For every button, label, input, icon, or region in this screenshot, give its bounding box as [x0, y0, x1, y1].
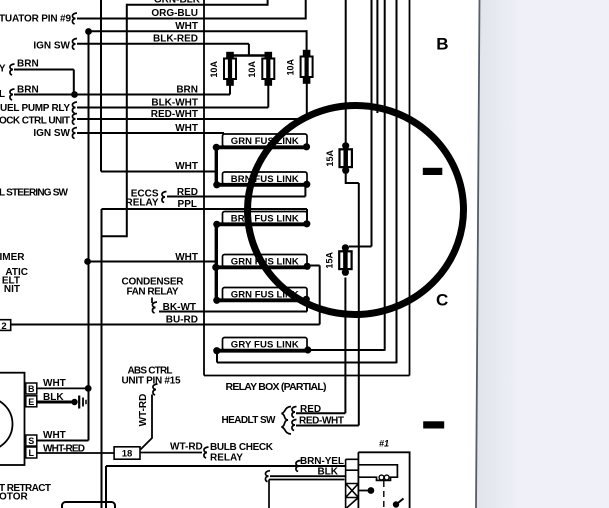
wire ORG-BLU exit top [305, 0, 307, 20]
connector squiggle condenser fan relay [151, 298, 153, 304]
relay 1 connector column [346, 459, 359, 508]
wire BRN branch drop [73, 70, 75, 95]
fusible link L4 bar [216, 265, 308, 269]
fuse F5 terminals [342, 244, 349, 251]
svg-text:B: B [28, 384, 35, 394]
wire GRY load riser to top [384, 0, 386, 351]
fusible link L2 bar [217, 183, 308, 187]
fuse F1 terminals [226, 52, 234, 59]
wire jog to GRN-BLK bus [102, 235, 127, 237]
svg-text:TUATOR PIN #9: TUATOR PIN #9 [0, 14, 71, 25]
svg-text:WHT: WHT [175, 123, 198, 134]
wire ORG-BLU [77, 18, 306, 20]
svg-text:PPL: PPL [178, 199, 197, 210]
svg-text:BRN-YEL: BRN-YEL [300, 456, 344, 467]
wire BLK to relay 1 [270, 475, 346, 477]
relay 1 switch arm dot [393, 501, 399, 507]
connector squiggle RED-WHT [72, 114, 77, 125]
fuse F5 15A body [339, 251, 351, 269]
svg-text:RED-WHT: RED-WHT [151, 109, 198, 120]
wire GRN-BLK horizontal [127, 4, 268, 6]
relay 1 switch arm [396, 499, 404, 505]
pin L box [26, 447, 37, 458]
relay 1 lower diagonal [347, 498, 359, 508]
junction dot WHT row6 [84, 258, 91, 265]
fuse F2 10A body [262, 59, 274, 80]
svg-text:BULB CHECK: BULB CHECK [210, 442, 274, 453]
fuse F4 15A body [340, 149, 352, 167]
connector squiggle ABS ctrl [153, 384, 158, 395]
svg-text:C: C [436, 291, 448, 310]
wire 15A F5 feed from top [371, 0, 373, 247]
fuse F2 terminals [265, 52, 273, 59]
fusible link L5 GRN FUS LINK box [223, 288, 308, 300]
fusible link L4 dots [212, 264, 219, 271]
svg-text:WHT: WHT [175, 161, 198, 172]
wire GRY link feed stub [216, 351, 218, 363]
svg-text:BRN FUS LINK: BRN FUS LINK [231, 174, 299, 185]
fusible link L1 bar [216, 145, 307, 149]
fusible link L3 BRN FUS LINK box [223, 212, 308, 224]
svg-text:RED-WHT: RED-WHT [299, 415, 344, 426]
wire RED to HEADLT SW [296, 412, 345, 414]
wire RED-WHT to HEADLT SW [296, 425, 359, 427]
wire BRN upper branch [14, 69, 74, 71]
fusible link L4 GRN FUS LINK box [223, 255, 308, 267]
svg-text:BU-RD: BU-RD [166, 314, 198, 325]
bottom component box top edge [106, 465, 346, 467]
relay box right edge [409, 0, 411, 376]
wire RED-WHT row [77, 118, 307, 120]
svg-text:10A: 10A [285, 59, 295, 76]
svg-text:18: 18 [122, 449, 133, 460]
svg-text:FAN RELAY: FAN RELAY [127, 287, 179, 298]
svg-text:L: L [0, 89, 5, 100]
svg-text:RED: RED [177, 187, 198, 198]
fuse F3 terminals [303, 50, 311, 57]
svg-text:GRN FUS LINK: GRN FUS LINK [231, 257, 299, 268]
wire GRY feed horizontal [217, 362, 397, 364]
bottom component inner box [269, 480, 345, 508]
svg-text:OCK CTRL UNIT: OCK CTRL UNIT [0, 116, 70, 127]
bottom rounded box [62, 502, 115, 508]
wire bus x102 lower vertical [101, 209, 103, 508]
connector squiggle WHT row4 [72, 128, 77, 139]
wire stub x377 from top [376, 0, 378, 113]
fusible link L6 GRY FUS LINK box [223, 338, 308, 350]
wire BU-RD jog to link L4 [308, 265, 320, 267]
relay 1 coil housing profile [358, 465, 397, 481]
pin S box [26, 435, 37, 446]
annotation circle [242, 100, 469, 320]
fusible link L2 dots [213, 181, 220, 188]
fusible link L6 dots [213, 347, 220, 354]
svg-text:WHT: WHT [175, 252, 198, 263]
wire 15A F4 output elbow [346, 174, 359, 184]
wire GRN-BLK exit top [267, 0, 269, 6]
headlt sw brace [282, 407, 292, 435]
svg-text:S: S [28, 436, 34, 446]
relay 1 coil terminal circles [379, 475, 384, 480]
wire WHT drop to fuse F3 [306, 30, 308, 53]
svg-text:15A: 15A [325, 150, 335, 167]
relay 1 armature dashed line [383, 481, 385, 508]
wire 15A F5 output drop [344, 278, 346, 414]
svg-text:BLK: BLK [317, 466, 338, 477]
svg-text:WHT-RED: WHT-RED [43, 444, 85, 455]
svg-text:BK-WT: BK-WT [163, 302, 196, 313]
connector squiggle headlt RED-WHT [292, 420, 297, 431]
marker bar B [423, 168, 443, 175]
wire BU-RD row from box 2 [11, 324, 320, 326]
fuse F1 element bar [228, 52, 232, 86]
svg-text:HEADLT SW: HEADLT SW [222, 415, 277, 426]
svg-text:Y: Y [0, 63, 6, 74]
wire WT-RD to ABS ctrl unit [141, 395, 153, 450]
wire BU-RD riser [319, 266, 321, 325]
connector squiggle BLK bottom [265, 471, 270, 482]
ground bars [78, 396, 80, 409]
wire BLK-WHT row [77, 107, 268, 109]
svg-text:BRN: BRN [176, 84, 198, 95]
connector box 2 [0, 320, 11, 331]
connector squiggle BLK-RED [72, 39, 77, 50]
pin B box [26, 383, 37, 394]
svg-text:#1: #1 [379, 439, 389, 449]
wire bus x88 vertical [88, 31, 90, 440]
svg-text:10A: 10A [209, 61, 219, 78]
marker bar C [423, 421, 444, 428]
wire RED stub to link L2 [304, 186, 306, 197]
relay box bottom edge [204, 375, 410, 377]
junction dot BRN [71, 91, 78, 98]
wire bus GRN-BLK vertical x127 [126, 4, 128, 237]
connector squiggle bulb check relay [204, 447, 209, 458]
wire bus x101 upper vertical [100, 0, 102, 172]
fuse F3 element bar [305, 50, 309, 84]
bottom component box left edge [105, 466, 107, 508]
wire BK-WT stub to link L5 [306, 301, 308, 312]
connector squiggle BLK-WHT [72, 102, 77, 113]
svg-text:IMER: IMER [0, 252, 25, 263]
svg-text:WHT: WHT [175, 21, 198, 32]
svg-text:WHT: WHT [43, 430, 66, 441]
svg-text:BRN FUS LINK: BRN FUS LINK [231, 214, 299, 225]
svg-text:BRN: BRN [17, 85, 39, 96]
connector squiggle BRN upper [10, 64, 15, 75]
wire WHT row4 from IGN SW [77, 132, 224, 134]
fusible link L3 dots [213, 221, 220, 228]
fusible link L3 bar [217, 222, 308, 226]
wire PPL row [102, 208, 308, 210]
wire RED row [167, 196, 305, 198]
wire BK-WT row [159, 311, 307, 313]
svg-text:IGN SW: IGN SW [33, 128, 70, 139]
svg-text:E: E [28, 397, 34, 407]
wire WHT row3 [89, 30, 307, 32]
svg-text:BLK: BLK [43, 392, 64, 403]
wire pin S WHT row [37, 440, 89, 442]
wire BLK-RED [77, 43, 249, 45]
connector squiggle BRN-YEL [296, 461, 301, 472]
wire 15A F4 output drop [358, 183, 360, 426]
svg-text:RED: RED [300, 404, 321, 415]
wire GRY link load side [308, 349, 385, 351]
connector squiggle headlt RED [292, 407, 297, 418]
wire fuse top rail F1-F2 [230, 54, 268, 56]
wire pin L WHT-RED [37, 452, 114, 454]
connector box 18 [114, 447, 140, 459]
svg-text:RELAY BOX (PARTIAL): RELAY BOX (PARTIAL) [226, 381, 327, 393]
svg-text:10A: 10A [247, 61, 257, 78]
svg-text:GRN FUS LINK: GRN FUS LINK [231, 290, 299, 301]
svg-text:ORG-BLU: ORG-BLU [151, 8, 198, 19]
wire PPL stub to link L3 [306, 209, 308, 220]
page edge line [476, 0, 480, 508]
seat retract motor body [0, 373, 25, 465]
connector squiggle ORG-BLU [72, 13, 77, 24]
fusible link L6 bar [217, 349, 309, 353]
svg-text:NIT: NIT [4, 284, 20, 295]
connector squiggle BRN lower [10, 89, 15, 100]
svg-text:GRY FUS LINK: GRY FUS LINK [231, 340, 299, 351]
wire WHT row5 to fus link bank [101, 171, 217, 173]
svg-text:BRN: BRN [17, 59, 39, 70]
wire fuse F3 bottom stub [306, 82, 308, 120]
svg-text:BLK-WHT: BLK-WHT [151, 97, 198, 108]
wire WT-RD from box 18 [140, 452, 202, 454]
junction dot WHT top [85, 28, 92, 35]
svg-text:GRN FUS LINK: GRN FUS LINK [231, 136, 299, 147]
wire BLK-RED drop to fuse rail [248, 44, 250, 56]
ground dot [71, 399, 77, 405]
relay 1 contact X cell [346, 484, 359, 498]
pin E box [26, 396, 37, 407]
fuse F4 element bar [343, 143, 348, 174]
fuse F2 element bar [266, 52, 270, 86]
relay 1 main box [358, 452, 409, 508]
svg-text:WHT: WHT [43, 378, 66, 389]
svg-text:WT-RD: WT-RD [138, 394, 149, 427]
fuse F5 element bar [343, 245, 348, 276]
svg-text:UEL PUMP RLY: UEL PUMP RLY [0, 103, 70, 114]
seat retract motor circle [0, 398, 13, 451]
relay 1 contact lead [358, 490, 368, 492]
svg-text:GRN-BLK: GRN-BLK [154, 0, 201, 6]
fusible link L2 BRN FUS LINK box [223, 172, 308, 184]
svg-text:WT-RD: WT-RD [170, 442, 203, 453]
fuse F1 10A body [224, 59, 236, 80]
fuse F4 terminals [342, 142, 349, 149]
svg-text:L STEERING SW: L STEERING SW [0, 188, 69, 199]
svg-text:L: L [29, 448, 35, 458]
svg-text:OTOR: OTOR [0, 492, 28, 503]
wire pin B WHT [37, 387, 88, 389]
fusible link L1 dots [213, 144, 220, 151]
relay box left edge [203, 0, 205, 376]
fusible link L5 bar [217, 298, 307, 302]
fuse F3 10A body [301, 57, 313, 78]
svg-text:B: B [436, 35, 448, 54]
wire WHT row6 [88, 261, 217, 263]
wire 15A F4 feed from top [345, 0, 347, 143]
svg-text:2: 2 [1, 321, 6, 332]
connector squiggle ECCS relay [162, 192, 167, 203]
page margin area right of edge [476, 0, 609, 508]
wire GRY feed riser to top [396, 0, 398, 363]
wire pin E BLK [37, 401, 72, 404]
relay 1 contact dot [368, 487, 375, 494]
fusible link L1 GRN FUS LINK box [223, 134, 308, 146]
wire fuse F2 bottom stub [267, 84, 269, 108]
fusible link L5 dots [213, 297, 220, 304]
junction dot pin B [85, 385, 92, 392]
svg-text:UNIT PIN #15: UNIT PIN #15 [122, 376, 181, 387]
wire 15A F5 feed jog [349, 246, 372, 248]
wire fuse F1 bottom stub [229, 84, 231, 95]
svg-text:IGN SW: IGN SW [33, 41, 70, 52]
fusible link bank tie L1-L2 [215, 147, 218, 185]
svg-text:15A: 15A [325, 252, 335, 269]
svg-text:RELAY: RELAY [126, 197, 159, 208]
fusible link bank tie L3-L5 [215, 224, 218, 300]
wire BRN row [14, 94, 230, 96]
svg-text:RELAY: RELAY [210, 453, 243, 464]
svg-text:BLK-RED: BLK-RED [153, 34, 198, 45]
